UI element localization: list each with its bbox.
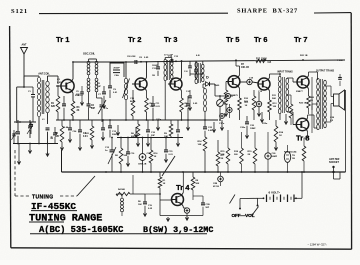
wire Tr3 emitter: [180, 88, 182, 91]
resistor R17 feedback: [289, 104, 293, 118]
wire Tr3 collector: [180, 78, 182, 81]
wire Tr7 collector: [307, 76, 309, 79]
wire loop bottom: [109, 80, 111, 86]
top bus wire mid: [130, 61, 205, 62]
mid bus segment 2: [132, 119, 218, 121]
svg-text:10K: 10K: [138, 204, 142, 206]
detector bypass capacitor: [188, 95, 192, 97]
bypass electrolytic C19: [256, 101, 261, 106]
lower bus B-minus: [62, 171, 346, 173]
ground arrow Tr4b: [186, 213, 188, 216]
osc capacitor cluster: [80, 91, 84, 93]
wire mid bus segment: [96, 119, 132, 121]
svg-text:Tr 6: Tr 6: [254, 35, 268, 44]
detector coil L5: [204, 88, 207, 93]
title rule left segment: [39, 12, 228, 14]
ground arrow coil: [47, 144, 49, 153]
capacitor C7 pair: [101, 127, 105, 129]
wire Tr4 base line: [159, 188, 161, 200]
junction dots lower bus: [105, 171, 107, 173]
svg-text:S121: S121: [11, 8, 28, 15]
wire L3 top: [125, 62, 127, 78]
B+ top bus wire: [73, 61, 130, 63]
svg-text:6P-1B: 6P-1B: [213, 186, 219, 188]
capacitor C20: [245, 121, 249, 123]
transistor Tr1: [61, 79, 74, 92]
svg-text:0-B: 0-B: [268, 62, 272, 64]
svg-text:2000P: 2000P: [113, 68, 120, 70]
wire T2 primary bottom: [279, 114, 281, 120]
title rule right segment: [314, 12, 351, 14]
electrolytic C14 10MF: [139, 154, 146, 161]
wire T3 to speaker: [325, 85, 331, 87]
wire Tr4 collector: [182, 193, 184, 196]
svg-text:– 1284 W–327›: – 1284 W–327›: [307, 243, 326, 247]
wire Tr1 collector: [71, 79, 73, 82]
electrolytic C17: [220, 114, 225, 119]
svg-text:SOCKET: SOCKET: [329, 161, 340, 164]
oscillator coil L2 upper: [87, 61, 90, 64]
svg-text:7 C30: 7 C30: [337, 60, 343, 62]
svg-text:10MF: 10MF: [250, 128, 256, 130]
svg-text:2SB75: 2SB75: [231, 95, 238, 97]
power switch SW: [252, 214, 254, 216]
wire Tr8 collector: [306, 118, 308, 121]
variable capacitor C12m: [110, 149, 115, 151]
resistor R5 bias: [131, 100, 135, 116]
emitter resistor R4: [145, 98, 149, 112]
base bias resistor R1: [56, 96, 60, 112]
wire T2 sec to Tr7 base: [287, 77, 293, 79]
svg-text:Tr 3: Tr 3: [164, 35, 178, 44]
wire T2 centertap: [287, 94, 291, 96]
svg-text:56K: 56K: [272, 98, 276, 100]
tuning dashed box vertical: [14, 150, 16, 196]
transistor Tr8: [296, 118, 308, 130]
svg-text:1B: 1B: [152, 75, 155, 77]
wire Tr4 emitter: [182, 204, 184, 207]
wire Tr2 base: [132, 83, 136, 85]
variable capacitor VC2 oscillator: [101, 98, 103, 104]
wire VR bottom: [219, 112, 221, 120]
wire osc vline: [132, 175, 134, 188]
border bottom: [11, 248, 352, 249]
wire battery left: [258, 197, 264, 199]
svg-text:50MF: 50MF: [272, 156, 278, 158]
upper-left drop capacitor C24: [68, 127, 72, 129]
resistor R8 56K: [191, 177, 195, 190]
capacitor C11: [151, 103, 155, 105]
transistor Tr2: [135, 78, 147, 90]
resistor R18 360: [240, 148, 244, 164]
resistor R15 50K: [226, 148, 230, 164]
emitter resistor R8: [180, 98, 184, 112]
wire right rail: [345, 90, 347, 172]
tuning dashed box horizontal right: [60, 195, 77, 197]
capacitor C19o: [143, 201, 147, 203]
driver transformer T2: [278, 76, 281, 81]
wire Tr5 emitter: [238, 86, 240, 89]
resistor R2: [60, 126, 64, 142]
capacitor C2: [46, 127, 50, 129]
wire coil primary top: [38, 76, 40, 77]
svg-text:1000P: 1000P: [152, 65, 159, 67]
svg-text:10MF-1B: 10MF-1B: [138, 164, 147, 166]
svg-text:1B: 1B: [292, 158, 295, 160]
svg-text:R12 100M: R12 100M: [256, 59, 267, 61]
bias resistor R6b: [136, 124, 140, 138]
wire Tr5 base: [226, 81, 228, 83]
emitter electrolytic C22o: [184, 208, 189, 213]
capacitor C30: [338, 77, 342, 79]
wire Tr2 emitter: [145, 88, 147, 91]
capacitor C16sw: [126, 151, 130, 153]
border right: [350, 13, 352, 250]
antenna terminal socket: [332, 166, 334, 168]
base resistor R10: [224, 90, 228, 104]
svg-text:50K: 50K: [221, 154, 225, 156]
capacitor C8: [134, 60, 136, 64]
wire Tr1 base: [56, 85, 61, 87]
supply resistor R12 100M: [256, 59, 266, 62]
wire IFT2 tops: [164, 58, 166, 60]
emitter bypass capacitor C5: [72, 116, 74, 120]
wire T2 primary top: [279, 74, 281, 76]
wire det to VR: [213, 83, 215, 85]
svg-text:C1B: C1B: [206, 204, 211, 206]
wire Tr6 collector: [268, 78, 270, 81]
svg-text:INPUT TRANS: INPUT TRANS: [277, 71, 293, 74]
svg-text:OUTPUT TRANS: OUTPUT TRANS: [316, 70, 334, 73]
svg-text:ANT: ANT: [22, 44, 27, 47]
svg-text:6-B: 6-B: [196, 55, 200, 57]
wire left gang column: [17, 120, 19, 132]
mid bus dots: [111, 137, 113, 139]
svg-text:OFF—VOL: OFF—VOL: [232, 213, 255, 218]
pointer diagonal osc: [162, 156, 175, 176]
transistor Tr6: [258, 78, 270, 90]
wire battery right: [294, 197, 302, 199]
volume potentiometer VR: [217, 100, 224, 107]
ground arrows under IF stages: [117, 125, 119, 131]
svg-text:1K: 1K: [154, 156, 157, 158]
transistor Tr7: [297, 76, 309, 88]
transistor Tr4: [172, 194, 184, 206]
ground arrow Tr4a: [166, 217, 169, 221]
wire Tr6 emitter: [268, 88, 270, 91]
svg-text:2K: 2K: [221, 158, 224, 160]
svg-text:6 VOLT•: 6 VOLT•: [269, 191, 280, 195]
underline IF-455KC: [31, 210, 77, 212]
wire T3 centertap: [312, 103, 318, 105]
wire Tr5 collector: [238, 75, 240, 78]
electrolytic C26 50MF: [265, 153, 271, 159]
resistor R17m 2K: [216, 152, 220, 166]
resistor R14m 10K: [203, 137, 207, 151]
coupling electrolytic C16: [225, 93, 230, 98]
wire Tr2 collector: [145, 78, 147, 81]
svg-text:50P: 50P: [206, 207, 210, 209]
gang routing wire: [16, 87, 18, 121]
wire switch bottom: [239, 208, 241, 210]
svg-text:1K: 1K: [245, 105, 248, 107]
capacitor C1B 50P: [201, 202, 205, 204]
svg-text:30P: 30P: [151, 135, 155, 137]
svg-text:2K: 2K: [248, 154, 251, 156]
wire bias bus: [56, 119, 96, 121]
svg-text:ANT.COIL: ANT.COIL: [38, 73, 50, 76]
svg-text:TH: TH: [292, 155, 295, 157]
svg-text:10K: 10K: [198, 144, 202, 146]
battery B1: [266, 195, 268, 203]
capacitor C13b cluster: [156, 66, 160, 68]
tuning dashed box horizontal left: [15, 195, 30, 197]
svg-text:R21 1B: R21 1B: [300, 55, 308, 57]
antenna coil T1 secondary: [46, 81, 49, 86]
wire Tr1 emitter: [71, 90, 73, 93]
emitter resistor R13: [268, 100, 272, 112]
capacitor C23 0.02: [203, 126, 207, 128]
lower capacitor C2a: [29, 124, 33, 126]
speaker SP: [334, 94, 340, 106]
output transformer T3: [317, 78, 320, 83]
svg-text:C11a: C11a: [156, 119, 162, 121]
tuning pointer line: [77, 176, 95, 196]
svg-text:2SA101: 2SA101: [75, 94, 84, 97]
svg-text:1K: 1K: [279, 135, 282, 137]
svg-text:Tr 7: Tr 7: [294, 35, 308, 44]
IF transformer IFT3: [195, 62, 198, 67]
coupling loop wire: [110, 63, 124, 80]
underline bands: [30, 233, 207, 235]
AGC wire: [190, 73, 202, 75]
box edge vertical: [61, 150, 63, 172]
svg-text:1N60: 1N60: [214, 85, 220, 87]
capacitor C9A 2000P: [113, 69, 120, 71]
mid bus: [117, 137, 183, 139]
resistor R19 2K: [253, 148, 257, 164]
coupling electrolytic C18: [247, 79, 252, 84]
osc feedback capacitor C6: [87, 103, 91, 105]
transistor Tr5: [228, 76, 240, 88]
coil L4 SW: [121, 198, 124, 201]
capacitor C15m: [164, 149, 168, 151]
capacitor C10: [146, 129, 150, 131]
wire IFT2 bottom: [164, 81, 166, 120]
underline TUNING: [29, 221, 64, 223]
detector area capacitor Cb: [194, 69, 198, 71]
svg-text:10K-1B: 10K-1B: [241, 67, 249, 69]
junction dots on top bus: [235, 59, 237, 61]
detector area capacitor Ca: [188, 65, 192, 67]
second electrolytic C21: [227, 107, 232, 112]
oscillator electrolytic C24: [218, 176, 224, 182]
wire Tr4 bottom: [160, 215, 203, 217]
gang node line: [14, 121, 36, 123]
gang trimmer lower: [13, 130, 15, 144]
svg-text:OSC.COIL: OSC.COIL: [83, 53, 96, 56]
wire osc to gang: [97, 97, 103, 99]
svg-text:TUNING RANGE: TUNING RANGE: [29, 214, 102, 225]
emitter resistor R11: [238, 98, 242, 110]
svg-text:D: D: [206, 76, 209, 80]
svg-text:Tr 2: Tr 2: [128, 35, 142, 44]
trimmer capacitor CT1: [28, 125, 32, 127]
border left: [10, 26, 11, 248]
resistor R9 bias: [169, 124, 173, 136]
capacitor C7 upper: [102, 91, 106, 93]
capacitor C12t: [170, 59, 172, 63]
wire detector junction: [202, 84, 204, 88]
pointer to volume pot: [230, 195, 236, 204]
svg-text:TUNING: TUNING: [32, 195, 54, 201]
svg-text:C9A: C9A: [114, 74, 119, 77]
wire coil bottoms: [38, 117, 40, 144]
ground arrow gang1: [18, 144, 20, 161]
wire coil secondary top: [47, 76, 49, 81]
svg-text:12K: 12K: [55, 136, 60, 138]
svg-text:2K: 2K: [77, 110, 80, 112]
base bias resistor R12b: [252, 96, 256, 110]
wire Tr3 base: [171, 83, 173, 84]
svg-text:C20a: C20a: [240, 127, 246, 129]
svg-text:R23 1B: R23 1B: [299, 103, 307, 105]
IF transformer IFT2: [164, 59, 167, 64]
ground arrow gang2: [29, 144, 31, 150]
svg-text:0.04: 0.04: [83, 135, 88, 138]
capacitor C14t: [186, 103, 190, 105]
resistor R4 horizontal: [116, 192, 130, 195]
svg-text:62K: 62K: [51, 106, 56, 108]
antenna coil core: [41, 80, 43, 114]
svg-text:C8 0.5M: C8 0.5M: [127, 56, 135, 58]
svg-text:Tr 5: Tr 5: [226, 35, 240, 44]
wire L3 bottom: [125, 100, 127, 120]
wire Tr7 emitter: [307, 86, 309, 89]
capacitor C1: [31, 94, 35, 96]
svg-text:1B: 1B: [310, 100, 313, 102]
svg-text:2SB77: 2SB77: [296, 91, 303, 93]
left mini ground bus: [13, 143, 58, 145]
svg-text:SHARPE BX-327: SHARPE BX-327: [237, 8, 298, 15]
svg-text:R4 56K: R4 56K: [118, 188, 126, 191]
base rail vline: [311, 77, 313, 133]
svg-text:R12a: R12a: [262, 123, 268, 125]
wire C1B top: [193, 195, 203, 197]
svg-text:Tr 1: Tr 1: [56, 35, 70, 44]
svg-text:1K: 1K: [163, 183, 166, 185]
IF slug coil L3: [124, 78, 127, 83]
transistor Tr3: [170, 78, 182, 90]
resistor R16 1K: [149, 150, 153, 163]
svg-text:30P: 30P: [97, 86, 101, 88]
svg-text:56K: 56K: [196, 183, 200, 185]
upper-left drop resistor R22: [90, 126, 94, 140]
thermistor TH 1B: [284, 152, 290, 163]
capacitor C4: [78, 129, 82, 131]
capacitor C15t: [176, 129, 180, 131]
emitter resistors output pair: [307, 96, 311, 108]
top bus wire right: [205, 60, 345, 61]
resistor R14: [274, 126, 278, 142]
detector diode D: [203, 83, 206, 85]
antenna coil T1 primary: [37, 77, 40, 82]
wire osc bottoms: [88, 92, 90, 104]
resistor R1 1K: [158, 177, 162, 188]
emitter resistor R3: [71, 101, 75, 116]
oscillator coil L2 lower: [87, 78, 90, 81]
wire Tr8 emitter: [306, 129, 308, 132]
svg-text:C2B: C2B: [213, 183, 218, 185]
wire T2 sec to Tr8 base: [287, 111, 293, 113]
resistor R6m 560: [119, 148, 123, 164]
wire hline Tr4: [133, 193, 145, 195]
